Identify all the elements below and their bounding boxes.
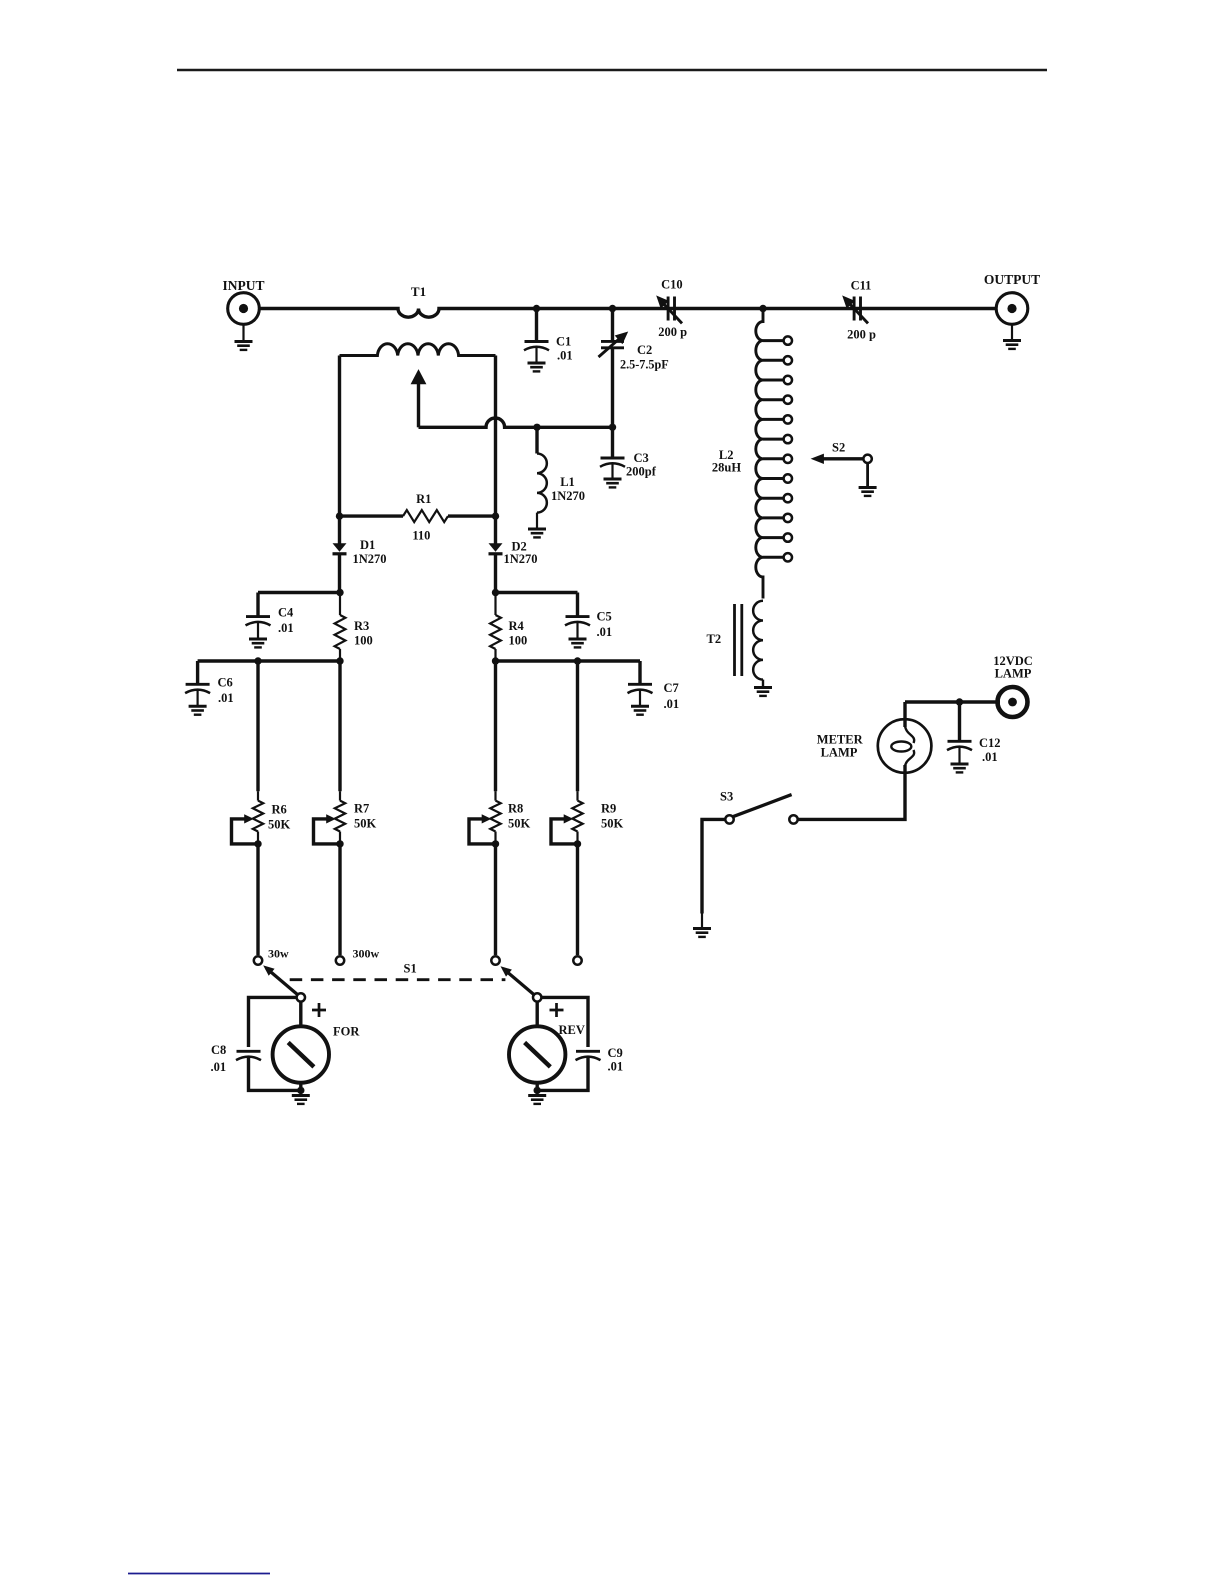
svg-text:28uH: 28uH bbox=[712, 461, 741, 475]
wire L2 tap 6 bbox=[763, 438, 784, 441]
svg-text:C5: C5 bbox=[597, 610, 612, 624]
ground (OUTPUT) bbox=[1003, 341, 1021, 349]
L2 tap terminal 5 bbox=[784, 415, 792, 423]
transformer T2 winding bbox=[753, 601, 763, 680]
node FOR meter bottom bbox=[297, 1087, 304, 1094]
wire T2 to ground bbox=[762, 680, 764, 687]
ground (FOR) bbox=[292, 1096, 310, 1104]
wire OUTPUT to ground bbox=[1011, 324, 1013, 340]
wire L2 tap 1 bbox=[763, 339, 784, 342]
svg-text:LAMP: LAMP bbox=[995, 667, 1032, 681]
node left rail / R6 bbox=[254, 657, 261, 664]
svg-text:200 p: 200 p bbox=[847, 328, 876, 342]
wire S1 to FOR meter bbox=[299, 1002, 302, 1027]
resistor R3 bbox=[335, 593, 346, 662]
resistor R9 (pot) bbox=[551, 791, 583, 844]
bottom-left blue rule bbox=[128, 1573, 270, 1575]
wire C6 to ground bbox=[197, 691, 199, 706]
svg-text:2.5-7.5pF: 2.5-7.5pF bbox=[620, 358, 669, 372]
S3 contact left bbox=[725, 815, 733, 823]
L2 tap terminal 12 bbox=[784, 553, 792, 561]
wire S3 to ground run bbox=[702, 819, 725, 913]
switch S1 gang (dashed) bbox=[290, 978, 506, 981]
svg-text:100: 100 bbox=[509, 634, 528, 648]
wire L2 tap 7 bbox=[763, 457, 784, 460]
svg-text:S2: S2 bbox=[832, 441, 845, 455]
svg-text:30w: 30w bbox=[268, 947, 289, 961]
svg-text:50K: 50K bbox=[268, 818, 291, 832]
wire rail to R8 bbox=[494, 661, 497, 791]
svg-text:R4: R4 bbox=[509, 619, 525, 633]
wire down to meter lamp bbox=[903, 702, 906, 727]
svg-text:LAMP: LAMP bbox=[821, 746, 858, 760]
L2 tap terminal 1 bbox=[784, 336, 792, 344]
wire REV meter to ground node bbox=[536, 1083, 539, 1091]
wire C5 to ground bbox=[576, 623, 578, 639]
svg-text:D1: D1 bbox=[360, 538, 375, 552]
svg-text:1N270: 1N270 bbox=[551, 489, 585, 503]
svg-text:50K: 50K bbox=[354, 817, 377, 831]
L2 tap terminal 10 bbox=[784, 514, 792, 522]
svg-text:T1: T1 bbox=[411, 284, 426, 299]
node left rail / R7 bbox=[336, 657, 343, 664]
ground (C5) bbox=[569, 639, 587, 647]
diode D2 bbox=[489, 543, 503, 554]
svg-text:300w: 300w bbox=[353, 947, 380, 961]
svg-text:110: 110 bbox=[412, 529, 430, 543]
wire D1 to junction bbox=[338, 554, 341, 593]
ground (C6) bbox=[189, 706, 207, 714]
capacitor C3 bbox=[600, 458, 625, 467]
connector 12VDC LAMP bbox=[998, 687, 1028, 717]
node main line / C2 bbox=[609, 305, 616, 312]
node tap line / C2-C3 bbox=[609, 424, 616, 431]
wire S1 to REV meter bbox=[536, 1002, 539, 1027]
L2 tap terminal 11 bbox=[784, 533, 792, 541]
wire S1 to C8 bbox=[249, 997, 297, 1047]
wire to C1 bbox=[535, 309, 538, 342]
node R6 wiper junction bbox=[254, 840, 261, 847]
wire C12 to ground bbox=[958, 748, 960, 764]
wire junction to C5 bbox=[496, 591, 578, 594]
svg-text:.01: .01 bbox=[664, 697, 680, 711]
capacitor C7 bbox=[628, 684, 653, 693]
node main line / L2 bbox=[759, 305, 766, 312]
wire L2 tap 3 bbox=[763, 379, 784, 382]
wire D2 to junction bbox=[494, 554, 497, 593]
svg-text:METER: METER bbox=[817, 733, 864, 747]
svg-text:R1: R1 bbox=[416, 492, 431, 506]
diode D1 bbox=[333, 543, 347, 554]
svg-text:.01: .01 bbox=[278, 621, 294, 635]
svg-text:OUTPUT: OUTPUT bbox=[984, 272, 1040, 287]
svg-text:.01: .01 bbox=[597, 625, 613, 639]
inductor L2 28uH (tapped) bbox=[756, 309, 763, 599]
lamp DS1 METER LAMP bbox=[878, 719, 932, 773]
capacitor C11 (variable) bbox=[843, 296, 868, 323]
capacitor C12 bbox=[947, 741, 972, 750]
capacitor C6 bbox=[185, 684, 210, 693]
wire lamp feed bbox=[905, 700, 1000, 703]
wire C4 to ground bbox=[257, 623, 259, 639]
svg-text:50K: 50K bbox=[508, 817, 531, 831]
wire main line left segment with T1 primary dips bbox=[244, 309, 1012, 318]
svg-text:C10: C10 bbox=[661, 278, 683, 292]
wire C2 to tap node bbox=[611, 349, 614, 427]
wire rail to R7 bbox=[338, 661, 341, 791]
capacitor C8 bbox=[236, 1051, 261, 1060]
svg-text:R9: R9 bbox=[601, 802, 616, 816]
L2 tap terminal 6 bbox=[784, 435, 792, 443]
node right rail / R9 bbox=[574, 657, 581, 664]
wire R1 to right leg bbox=[448, 514, 496, 517]
tap arrow into T1 secondary bbox=[411, 369, 427, 427]
node right leg / R1 bbox=[492, 512, 499, 519]
svg-text:S1: S1 bbox=[404, 962, 417, 976]
wire to C12 bbox=[958, 702, 961, 741]
ground (L1) bbox=[528, 529, 546, 537]
wire rail to R6 bbox=[256, 661, 259, 791]
svg-text:100: 100 bbox=[354, 634, 373, 648]
wire C8 to meter bottom bbox=[249, 1058, 301, 1091]
svg-text:200 p: 200 p bbox=[658, 325, 687, 339]
svg-text:T2: T2 bbox=[707, 632, 722, 646]
capacitor C1 bbox=[524, 342, 549, 351]
wire tap line with hop over right leg bbox=[419, 418, 613, 427]
capacitor C9 bbox=[576, 1051, 601, 1060]
svg-text:REV: REV bbox=[559, 1023, 585, 1037]
node D2 column / C5 bbox=[492, 589, 499, 596]
svg-text:C2: C2 bbox=[637, 343, 652, 357]
svg-text:R8: R8 bbox=[508, 802, 523, 816]
wire FOR meter to ground node bbox=[299, 1083, 302, 1091]
wire L2 tap 11 bbox=[763, 536, 784, 539]
node lamp feed / C12 bbox=[956, 698, 963, 705]
capacitor C10 (variable) bbox=[657, 296, 682, 323]
wire right secondary leg bbox=[494, 356, 497, 544]
wire L1 to ground bbox=[536, 513, 538, 529]
node right rail / R8 bbox=[492, 657, 499, 664]
node left leg / R1 bbox=[336, 512, 343, 519]
S1 contact 300w bbox=[336, 956, 344, 964]
S1 contact (REV a) bbox=[491, 956, 499, 964]
svg-text:200pf: 200pf bbox=[626, 465, 657, 479]
capacitor C5 bbox=[565, 617, 590, 626]
svg-text:FOR: FOR bbox=[333, 1025, 360, 1039]
wire L2 tap 10 bbox=[763, 516, 784, 519]
node main line / C1 bbox=[533, 305, 540, 312]
switch S1 lever (FOR) bbox=[263, 965, 305, 1001]
svg-text:C3: C3 bbox=[634, 451, 649, 465]
wire L2 tap 8 bbox=[763, 477, 784, 480]
resistor R4 bbox=[490, 593, 501, 662]
L2 tap terminal 8 bbox=[784, 474, 792, 482]
svg-text:1N270: 1N270 bbox=[353, 552, 387, 566]
wire S1 to C9 bbox=[541, 997, 588, 1047]
capacitor C2 (variable) bbox=[599, 332, 628, 357]
wire L2 tap 9 bbox=[763, 497, 784, 500]
S3 contact right bbox=[789, 815, 797, 823]
S1 contact (REV b) bbox=[573, 956, 581, 964]
wire L2 tap 2 bbox=[763, 359, 784, 362]
svg-text:C6: C6 bbox=[218, 676, 233, 690]
ground (S3) bbox=[693, 929, 711, 937]
top horizontal rule bbox=[177, 69, 1047, 71]
svg-text:.01: .01 bbox=[218, 691, 234, 705]
ground (C12) bbox=[951, 764, 969, 772]
L2 tap terminal 2 bbox=[784, 356, 792, 364]
svg-text:C9: C9 bbox=[608, 1046, 623, 1060]
wire L2 tap 5 bbox=[763, 418, 784, 421]
wire L2 tap 12 bbox=[763, 556, 784, 559]
wire R6 to S1 terminal bbox=[256, 844, 259, 955]
svg-text:C11: C11 bbox=[851, 279, 872, 293]
svg-text:.01: .01 bbox=[982, 750, 998, 764]
ground (C4) bbox=[249, 639, 267, 647]
inductor L1 bbox=[537, 454, 547, 513]
svg-text:R7: R7 bbox=[354, 802, 369, 816]
connector J1 INPUT bbox=[228, 293, 260, 325]
node R9 wiper junction bbox=[574, 840, 581, 847]
switch S3 lever bbox=[733, 795, 791, 817]
L2 tap terminal 9 bbox=[784, 494, 792, 502]
wire INPUT to ground bbox=[242, 324, 244, 341]
wire C7 to ground bbox=[639, 691, 641, 706]
node R8 wiper junction bbox=[492, 840, 499, 847]
label + (FOR) bbox=[312, 1003, 326, 1017]
svg-text:INPUT: INPUT bbox=[222, 278, 264, 293]
svg-text:C7: C7 bbox=[664, 681, 679, 695]
transformer T1 secondary winding bbox=[340, 344, 496, 356]
L2 tap terminal 3 bbox=[784, 376, 792, 384]
wire junction to C4 bbox=[258, 591, 340, 594]
wire L2 tap 4 bbox=[763, 398, 784, 401]
wire main to C2 bbox=[611, 309, 614, 341]
ground (REV) bbox=[528, 1096, 546, 1104]
S1 contact 30w bbox=[254, 956, 262, 964]
svg-text:.01: .01 bbox=[211, 1060, 227, 1074]
svg-text:S3: S3 bbox=[720, 790, 733, 804]
connector J2 OUTPUT bbox=[996, 293, 1028, 325]
meter M1 FOR bbox=[273, 1026, 329, 1082]
wire rail to C6 bbox=[196, 661, 199, 684]
wire C9 to meter bottom bbox=[537, 1058, 588, 1091]
wire S3 ground stem bbox=[701, 914, 703, 929]
wire to C3 bbox=[611, 427, 614, 457]
svg-text:.01: .01 bbox=[557, 349, 573, 363]
wire S2 to ground bbox=[866, 463, 869, 487]
svg-text:R6: R6 bbox=[272, 803, 287, 817]
meter M2 REV bbox=[509, 1026, 565, 1082]
ground (C7) bbox=[631, 706, 649, 714]
wire down to C5 bbox=[576, 593, 579, 617]
ground (INPUT) bbox=[235, 342, 253, 350]
transformer T2 core bbox=[735, 604, 742, 676]
svg-text:1N270: 1N270 bbox=[504, 552, 538, 566]
svg-text:C8: C8 bbox=[211, 1043, 226, 1057]
node R7 wiper junction bbox=[336, 840, 343, 847]
wire rail to C7 bbox=[638, 661, 641, 684]
svg-text:C1: C1 bbox=[556, 335, 571, 349]
svg-text:L1: L1 bbox=[560, 475, 575, 489]
wire right rail bbox=[496, 659, 641, 662]
wire R9 to S1 terminal bbox=[576, 844, 579, 955]
wire R7 to S1 terminal bbox=[338, 844, 341, 955]
svg-text:.01: .01 bbox=[608, 1060, 624, 1074]
wire lamp to S3 bbox=[798, 765, 905, 819]
resistor R7 (pot) bbox=[314, 791, 346, 844]
switch S2 wiper arrow bbox=[811, 454, 872, 464]
wire R8 to S1 terminal bbox=[494, 844, 497, 955]
resistor R6 (pot) bbox=[232, 791, 264, 844]
ground (T2) bbox=[754, 688, 772, 696]
svg-text:50K: 50K bbox=[601, 817, 624, 831]
node D1 column / C4 bbox=[336, 589, 343, 596]
wire to R1 bbox=[340, 514, 404, 517]
node REV meter bottom bbox=[534, 1087, 541, 1094]
wire down to C4 bbox=[256, 593, 259, 617]
resistor R1 bbox=[403, 510, 448, 522]
resistor R8 (pot) bbox=[469, 791, 501, 844]
wire to L1 bbox=[535, 427, 538, 453]
wire C1 to ground bbox=[535, 347, 537, 363]
wire rail to R9 bbox=[576, 661, 579, 791]
node tap line / L1 bbox=[533, 424, 540, 431]
wire left secondary leg bbox=[338, 356, 341, 544]
ground (C1) bbox=[528, 363, 546, 371]
ground (S2) bbox=[859, 488, 877, 496]
svg-text:C4: C4 bbox=[278, 606, 294, 620]
svg-text:R3: R3 bbox=[354, 619, 369, 633]
L2 tap terminal 4 bbox=[784, 396, 792, 404]
capacitor C4 bbox=[246, 617, 271, 626]
label + (REV) bbox=[550, 1003, 564, 1017]
ground (C3) bbox=[604, 479, 622, 487]
wire C3 to ground bbox=[611, 464, 613, 479]
switch S1 lever (REV) bbox=[501, 966, 542, 1001]
wire left rail bbox=[198, 659, 340, 662]
L2 tap terminal 7 bbox=[784, 455, 792, 463]
svg-text:C12: C12 bbox=[979, 736, 1001, 750]
